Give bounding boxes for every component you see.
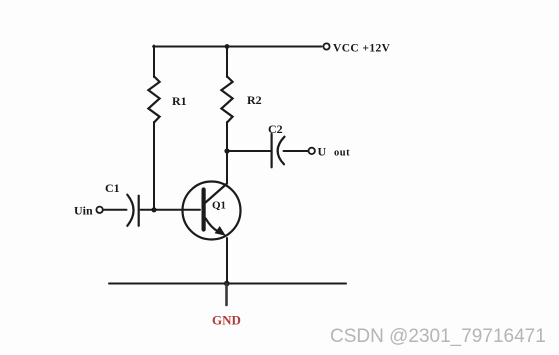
resistor R1 bbox=[148, 76, 159, 122]
svg-text:C1: C1 bbox=[105, 181, 120, 195]
svg-text:R2: R2 bbox=[247, 93, 262, 107]
svg-text:VCC +12V: VCC +12V bbox=[333, 43, 391, 55]
transistor Q1 base bar bbox=[202, 190, 206, 230]
svg-text:GND: GND bbox=[212, 313, 241, 328]
svg-text:C2: C2 bbox=[268, 122, 283, 136]
svg-text:Uin: Uin bbox=[74, 204, 93, 218]
wire R2 bottom to collector bbox=[226, 122, 228, 183]
resistor R2 bbox=[221, 76, 232, 122]
capacitor C1 bbox=[127, 195, 138, 226]
terminal VCC bbox=[323, 43, 329, 49]
terminal Uin bbox=[96, 207, 102, 213]
ground rail bbox=[109, 283, 346, 285]
terminal U out bbox=[309, 148, 315, 154]
svg-text:CSDN @2301_79716471: CSDN @2301_79716471 bbox=[330, 326, 546, 347]
transistor Q1 emitter bbox=[206, 218, 218, 231]
wire emitter down bbox=[226, 238, 228, 284]
wire R1 bottom to base node bbox=[153, 122, 155, 210]
svg-text:R1: R1 bbox=[172, 94, 187, 108]
svg-text:out: out bbox=[334, 148, 350, 159]
node top rail R2 junction bbox=[225, 44, 230, 49]
wire top rail VCC bbox=[153, 46, 322, 48]
transistor Q1 circle bbox=[183, 182, 241, 240]
capacitor C2 bbox=[272, 134, 285, 167]
node base junction bbox=[151, 207, 156, 212]
node collector junction bbox=[224, 148, 229, 153]
wire R1 top bbox=[153, 46, 155, 78]
wire R2 top bbox=[226, 46, 228, 78]
svg-text:Q1: Q1 bbox=[212, 200, 226, 212]
svg-text:U: U bbox=[318, 145, 327, 159]
node emitter-ground bbox=[224, 281, 230, 287]
transistor Q1 collector diagonal bbox=[206, 184, 228, 203]
ground stub bbox=[225, 284, 228, 305]
wire collector to C2 bbox=[227, 150, 271, 152]
wire input to C1 bbox=[103, 209, 126, 211]
wire C2 to output terminal bbox=[284, 150, 308, 152]
wire base bbox=[141, 209, 201, 211]
